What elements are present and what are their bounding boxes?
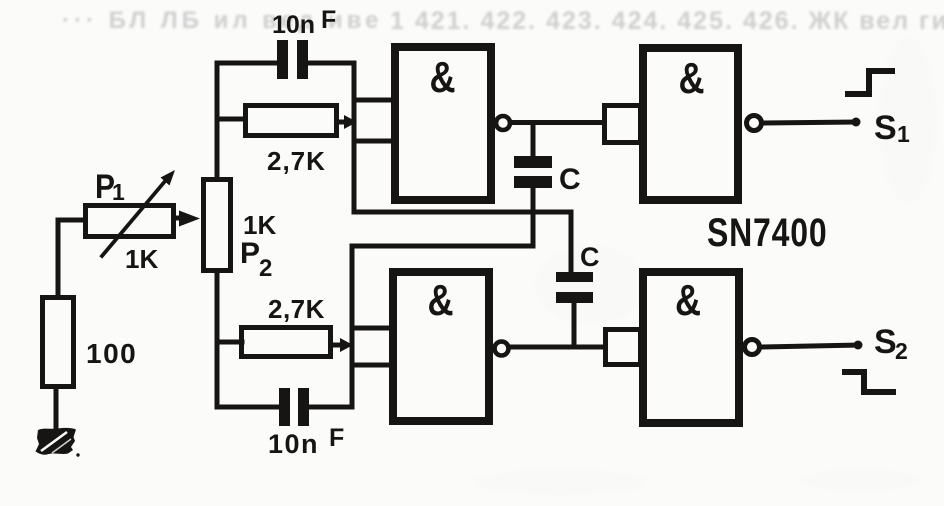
svg-text:S: S <box>874 323 897 361</box>
wire P1 wiper arrow to P2 <box>176 211 200 227</box>
svg-text:2,7K: 2,7K <box>268 294 325 324</box>
node S1 label <box>874 109 910 147</box>
svg-text:1K: 1K <box>243 210 276 240</box>
svg-text:C: C <box>559 163 581 196</box>
wire U1 output to U3 input <box>511 120 604 125</box>
wire 100-ohm resistor to P1 left terminal <box>58 220 85 295</box>
svg-text:1 421. 422. 423. 424. 425. 426: 1 421. 422. 423. 424. 425. 426. ЖК вел г… <box>390 7 944 35</box>
wire 10nF right to top-right rail <box>308 61 354 66</box>
svg-text:1: 1 <box>112 179 125 205</box>
wire gate2 input top <box>352 326 393 331</box>
wire U4 output to S2 <box>761 341 863 350</box>
svg-text:2,7K: 2,7K <box>267 146 326 176</box>
capacitor C2 (label C) <box>556 242 600 303</box>
wire U3 output to S1 <box>763 118 861 127</box>
wire line B (C1 to gate2 inputs) <box>352 246 533 407</box>
svg-text:1K: 1K <box>125 244 158 274</box>
wire C2 bottom down to U2 output wire <box>572 303 577 347</box>
svg-text:C: C <box>580 242 600 272</box>
svg-text:10n: 10n <box>272 11 315 39</box>
wire top-right rail <box>352 63 357 211</box>
wire line A (gate1 input down and right to C2) <box>354 141 571 272</box>
ground <box>36 389 80 457</box>
NAND gate U4 (&) with input box and output bubble <box>606 272 760 423</box>
svg-text:&: & <box>427 276 453 325</box>
NAND gate U2 (&) with output bubble <box>393 272 509 421</box>
svg-text:S: S <box>874 109 897 147</box>
wire gate1 input bottom <box>354 139 395 144</box>
NAND gate U3 (&) with input box and output bubble <box>605 48 762 200</box>
wire U1 output down to C1 <box>531 123 536 157</box>
wire left rail top: P2 top up to 10nF node <box>217 63 277 177</box>
svg-text:10n: 10n <box>268 429 319 459</box>
potentiometer P1 1K <box>86 167 176 274</box>
rising step symbol S1 <box>848 71 892 94</box>
svg-text:P: P <box>240 237 260 270</box>
NAND gate U1 (&) with output bubble <box>395 47 510 200</box>
svg-text:100: 100 <box>86 338 137 369</box>
wire 10nF bottom right to rail <box>309 405 352 410</box>
svg-text:2: 2 <box>259 255 272 282</box>
svg-text:2: 2 <box>895 338 908 364</box>
svg-text:1: 1 <box>897 121 910 147</box>
wire gate1 input top <box>354 98 395 103</box>
falling step symbol S2 <box>845 372 893 392</box>
svg-text:F: F <box>321 6 336 34</box>
svg-text:F: F <box>329 424 344 452</box>
potentiometer P2 1K <box>204 180 277 283</box>
wire U2 output to U4 input <box>510 345 605 350</box>
wire gate2 input bottom <box>352 363 393 368</box>
wire C1 bottom down to line B <box>531 188 536 246</box>
svg-text:&: & <box>678 54 704 103</box>
resistor 2,7K bottom <box>217 294 353 357</box>
resistor 2,7K top <box>221 106 357 177</box>
svg-text:&: & <box>675 276 701 325</box>
resistor 100 ohm <box>43 298 138 387</box>
svg-text:SN7400: SN7400 <box>707 210 827 255</box>
capacitor 10nF bottom <box>268 388 344 459</box>
wire left rail bottom: P2 bottom down to 10nF bottom <box>217 273 279 407</box>
node S2 label <box>874 323 908 364</box>
capacitor C1 (label C) <box>514 156 581 196</box>
svg-text:&: & <box>429 53 455 102</box>
capacitor 10nF top <box>272 6 336 79</box>
